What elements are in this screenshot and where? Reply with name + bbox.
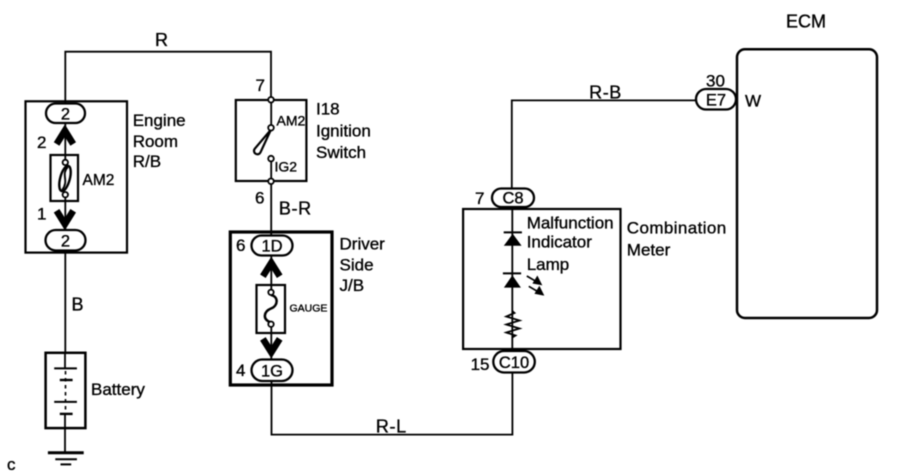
svg-text:7: 7 (475, 189, 484, 208)
svg-text:1G: 1G (261, 363, 283, 381)
connector oval 1D (252, 236, 293, 256)
connector oval 1G (252, 360, 293, 382)
wire inside J/B (upper) (270, 254, 272, 292)
svg-text:Room: Room (133, 132, 178, 151)
svg-text:4: 4 (236, 361, 245, 380)
contact IG2 (268, 156, 274, 162)
svg-text:1: 1 (37, 205, 46, 224)
J/B arrow down (Driver Side) (263, 339, 280, 352)
svg-text:2: 2 (61, 105, 70, 123)
svg-text:GAUGE: GAUGE (290, 302, 328, 314)
wire inside meter (511, 206, 513, 352)
label Engine Room R/B (133, 111, 186, 171)
diode D1 (504, 232, 522, 245)
LED diode D2 (503, 273, 521, 287)
svg-text:Ignition: Ignition (316, 121, 371, 140)
wire inside Engine Room R/B (upper segment) (64, 122, 66, 162)
wire inside Engine Room R/B (lower segment) (64, 195, 66, 231)
wire R-B (Combination Meter C8 to ECM E7) (512, 100, 697, 189)
wire battery to ground (64, 428, 66, 453)
svg-text:W: W (745, 92, 761, 111)
pin circle 7 (box top) (268, 97, 274, 103)
svg-text:2: 2 (37, 133, 46, 152)
wire inside switch (bottom) (270, 158, 272, 181)
svg-text:R/B: R/B (133, 152, 161, 171)
svg-text:AM2: AM2 (83, 172, 115, 189)
label Combination Meter (627, 219, 727, 260)
svg-text:Engine: Engine (133, 111, 186, 130)
svg-text:E7: E7 (706, 91, 726, 109)
connector oval C8 (492, 189, 534, 208)
svg-text:Indicator: Indicator (527, 232, 593, 251)
battery (46, 353, 86, 428)
svg-text:J/B: J/B (340, 276, 365, 295)
J/B arrow down (Engine Room) (57, 211, 74, 224)
svg-text:R: R (155, 30, 168, 50)
ground (48, 453, 84, 465)
I18 ignition switch box (236, 100, 307, 181)
svg-text:AM2: AM2 (277, 113, 306, 129)
svg-text:Meter: Meter (627, 241, 671, 260)
svg-text:c: c (7, 455, 16, 474)
fuse GAUGE (257, 285, 286, 333)
svg-text:B-R: B-R (279, 199, 312, 219)
svg-text:B: B (72, 295, 84, 315)
connector oval 2 (top of Engine Room R/B) (46, 104, 85, 124)
svg-text:Switch: Switch (316, 143, 366, 162)
svg-text:6: 6 (236, 236, 245, 255)
label Driver Side J/B (340, 234, 386, 295)
Engine Room R/B box (26, 101, 128, 252)
svg-text:ECM: ECM (786, 12, 826, 32)
wire inside switch (top) (270, 100, 272, 127)
svg-text:15: 15 (471, 355, 490, 374)
svg-text:C8: C8 (502, 190, 523, 208)
svg-text:1D: 1D (261, 238, 282, 256)
LED light arrows (527, 276, 543, 295)
ECM box (737, 49, 877, 318)
pin circle 6 (box bottom) (268, 179, 274, 185)
svg-text:Combination: Combination (627, 219, 727, 238)
contact AM2 (268, 125, 274, 131)
svg-text:R-B: R-B (589, 83, 622, 103)
fuse AM2 (Engine Room R/B) (51, 155, 79, 201)
wire R-L (Driver Side J/B to Combination Meter C10) (272, 372, 513, 435)
J/B arrow up (Driver Side) (263, 263, 280, 276)
connector oval C10 (493, 351, 535, 373)
svg-text:Battery: Battery (91, 380, 145, 399)
svg-text:C10: C10 (499, 354, 529, 372)
svg-text:Lamp: Lamp (527, 255, 570, 274)
svg-text:Malfunction: Malfunction (527, 213, 614, 232)
svg-text:I18: I18 (316, 100, 340, 119)
connector oval E7 (696, 89, 736, 110)
svg-text:Side: Side (340, 255, 374, 274)
label Malfunction Indicator Lamp (527, 213, 614, 273)
svg-text:7: 7 (256, 76, 265, 95)
Driver Side J/B box (230, 232, 332, 385)
svg-text:IG2: IG2 (275, 159, 298, 175)
connector oval 2 (bottom of Engine Room R/B) (46, 230, 86, 251)
svg-text:Driver: Driver (340, 234, 386, 253)
wire B (Engine Room R/B to battery) (64, 250, 66, 354)
wire inside J/B (lower) (270, 325, 272, 360)
svg-text:R-L: R-L (376, 417, 407, 437)
svg-text:2: 2 (61, 233, 70, 251)
switch lever (254, 130, 271, 155)
label I18 Ignition Switch (316, 100, 371, 163)
wire B-R (ignition switch IG2 to Driver Side J/B) (270, 183, 272, 236)
Combination Meter box (463, 209, 620, 349)
wire R (battery feed from Engine Room R/B to ignition switch) (65, 52, 271, 104)
resistor (lamp ballast) (506, 311, 519, 338)
svg-text:6: 6 (255, 189, 264, 208)
svg-text:30: 30 (706, 72, 725, 91)
J/B arrow up (Engine Room) (57, 131, 74, 144)
